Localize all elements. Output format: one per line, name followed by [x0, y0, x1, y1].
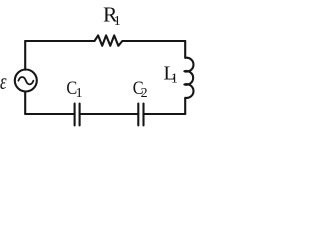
svg-text:2: 2 — [141, 86, 148, 101]
svg-text:1: 1 — [76, 86, 83, 101]
svg-text:1: 1 — [171, 72, 178, 87]
svg-text:1: 1 — [114, 14, 121, 29]
svg-text:ε: ε — [0, 69, 7, 94]
